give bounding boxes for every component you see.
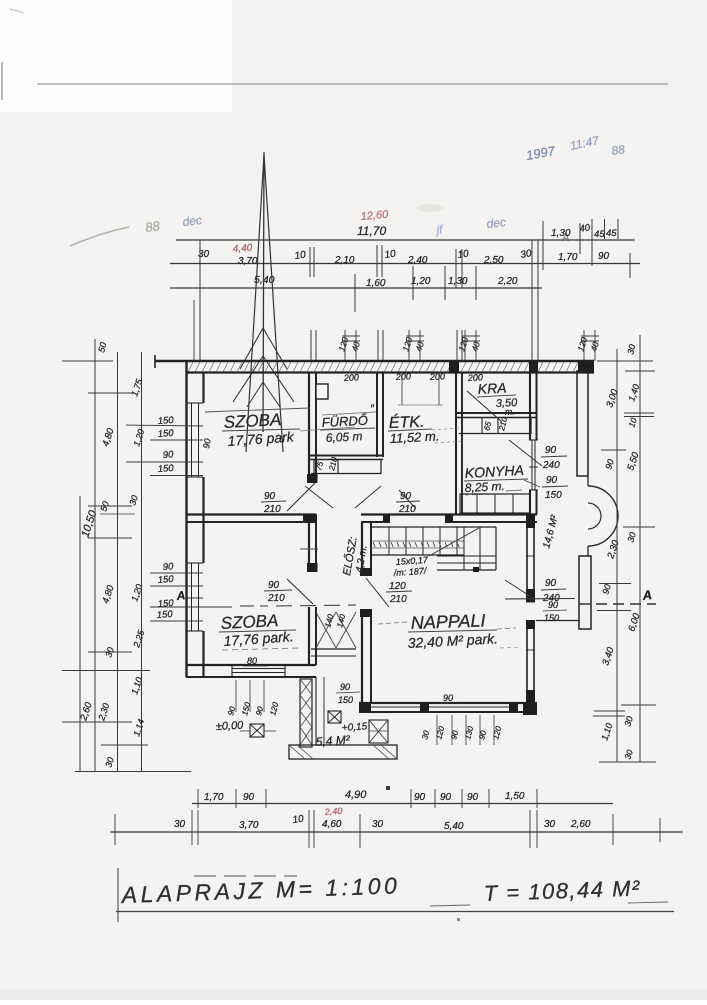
- bottom chain ticks lower: [115, 810, 660, 848]
- svg-text:1,50: 1,50: [505, 791, 525, 802]
- svg-text:10: 10: [384, 248, 397, 261]
- window W1 end ticks: [187, 403, 203, 477]
- left dims rotated mid: [100, 583, 146, 659]
- bottom chain line 1: [192, 803, 613, 805]
- veranda semicircle step: [588, 486, 618, 546]
- svg-text:5,4 M²: 5,4 M²: [315, 733, 351, 749]
- left window dims upper: [157, 415, 174, 475]
- title vertical tick: [117, 868, 119, 922]
- room label ELOSZ rotated: [339, 536, 370, 577]
- etk window verticals: [398, 372, 443, 405]
- konyha window dim 90-240: [509, 440, 567, 471]
- svg-text:200: 200: [467, 372, 484, 383]
- left window dims lower: [156, 561, 174, 621]
- nappali bottom dim ticks: [437, 715, 494, 745]
- wall etk-konyha: [456, 372, 462, 514]
- right dims rotated: [599, 343, 642, 760]
- window W2 glass lines: [192, 563, 199, 631]
- svg-text:90: 90: [268, 580, 280, 591]
- wall top left end tick: [154, 355, 156, 368]
- veranda semicircle inner: [588, 503, 601, 529]
- section line middle dashes: [276, 605, 356, 606]
- scan dot near bottom chain: [386, 786, 390, 790]
- kra door swing: [467, 391, 502, 422]
- svg-text:88: 88: [144, 218, 161, 235]
- svg-text:150: 150: [338, 695, 353, 705]
- left dims rotated upper: [79, 341, 146, 539]
- svg-text:45: 45: [594, 229, 605, 240]
- tree branch lower: [233, 356, 294, 407]
- wall nappali left: [362, 522, 371, 703]
- porch side lines: [316, 677, 324, 745]
- svg-text:2,10: 2,10: [334, 255, 355, 266]
- svg-text:200: 200: [395, 371, 412, 382]
- svg-text:80: 80: [247, 656, 257, 666]
- svg-text:90: 90: [340, 682, 350, 692]
- porch dim 90-150: [336, 682, 360, 705]
- stairs winder: [437, 527, 496, 572]
- kitchen counter: [460, 494, 530, 513]
- svg-text:NAPPALI: NAPPALI: [410, 610, 485, 633]
- svg-text:12,60: 12,60: [360, 209, 389, 223]
- door nappali label: [366, 578, 412, 607]
- benchmark p015: [328, 711, 368, 734]
- paper bright top-left corner: [0, 0, 232, 112]
- room label KONYHA: [464, 462, 528, 495]
- door jamb blocks middle wall: [303, 474, 318, 572]
- pencil curve top-left: [70, 227, 129, 246]
- svg-text:8,25 m.: 8,25 m.: [464, 479, 505, 495]
- svg-text:2,60: 2,60: [570, 819, 591, 830]
- svg-text:1,30: 1,30: [448, 276, 468, 287]
- svg-text:150: 150: [157, 463, 174, 475]
- wall top jamb block b: [529, 361, 538, 373]
- section line left: [150, 606, 268, 607]
- nappali bottom window glass: [371, 706, 509, 708]
- door hall swings X: [305, 486, 381, 508]
- svg-text:1,70: 1,70: [558, 252, 578, 263]
- stairs label: [392, 555, 429, 578]
- bottom chain ticks upper: [198, 789, 537, 808]
- svg-text:A: A: [641, 587, 653, 603]
- svg-text:dec: dec: [486, 215, 507, 231]
- window W2 end ticks: [187, 563, 203, 631]
- wall fur bottom: [309, 456, 383, 460]
- benchmark pm000: [216, 720, 276, 737]
- svg-text:SZOBA: SZOBA: [223, 410, 282, 432]
- wall top outer line: [155, 360, 594, 362]
- page top rule line: [37, 83, 668, 85]
- svg-text:2,40: 2,40: [323, 806, 342, 817]
- konyha window glass: [529, 440, 538, 490]
- room label NAPPALI: [378, 610, 520, 651]
- svg-text:210: 210: [263, 504, 281, 515]
- svg-text:240: 240: [542, 460, 560, 471]
- svg-text:120: 120: [389, 581, 406, 592]
- svg-text:10: 10: [294, 249, 307, 262]
- wall kra bottom: [456, 413, 537, 418]
- svg-text:90: 90: [545, 445, 557, 456]
- bottom wall rot dims: [226, 680, 280, 717]
- wall left inner segments: [202, 372, 204, 677]
- svg-text:1,30: 1,30: [551, 228, 571, 239]
- top chain line 1: [176, 239, 635, 241]
- wall bottom left inner: [186, 676, 316, 678]
- scan left edge mark: [1, 62, 3, 100]
- right chain verticals: [617, 335, 640, 762]
- svg-text:11,70: 11,70: [357, 224, 386, 238]
- dim 90 above bottom wall: [440, 693, 462, 703]
- konyha window dim 90-150: [524, 475, 568, 501]
- svg-text:KONYHA: KONYHA: [464, 462, 524, 481]
- veranda edge stubs: [536, 476, 588, 621]
- svg-text:88: 88: [610, 142, 625, 158]
- top chain ticks: [194, 240, 630, 361]
- title pre-rule: [194, 875, 297, 877]
- wall mid horizontal lower: [186, 521, 537, 523]
- svg-text:FÜRDŐ: FÜRDŐ: [321, 413, 368, 430]
- wall middle vertical outer: [308, 372, 310, 665]
- svg-text:90: 90: [243, 792, 255, 803]
- svg-text:4,60: 4,60: [322, 819, 342, 830]
- stairs outline: [371, 527, 496, 555]
- svg-text:30: 30: [544, 819, 556, 830]
- svg-text:3,70: 3,70: [239, 820, 259, 831]
- entry threshold: [311, 649, 356, 656]
- svg-text:150: 150: [157, 574, 174, 586]
- svg-text:150: 150: [156, 609, 173, 621]
- niche in szoba1 wall: [316, 384, 328, 399]
- svg-text:90: 90: [443, 693, 453, 703]
- svg-text:5,40: 5,40: [444, 821, 464, 832]
- svg-text:150: 150: [544, 613, 559, 623]
- svg-text:150: 150: [157, 428, 174, 440]
- veranda window rect upper: [577, 371, 588, 476]
- svg-text:90: 90: [201, 438, 213, 450]
- svg-text:2,40: 2,40: [407, 255, 428, 266]
- dim 80 above window W3: [243, 656, 268, 666]
- wall furdo-etk vertical: [377, 372, 383, 457]
- nappali right glass ticks: [526, 556, 535, 650]
- svg-text:3,70: 3,70: [238, 256, 258, 267]
- tree symbol right edge: [264, 155, 283, 452]
- room label FURDO: [320, 403, 376, 445]
- svg-text:200: 200: [429, 371, 446, 382]
- wall top hatching: [188, 362, 592, 372]
- section line right: [505, 599, 656, 605]
- scan dot under title: [457, 918, 460, 921]
- title underline dashes: [430, 902, 668, 906]
- wall bottom nappali jambs: [359, 703, 537, 715]
- window dim ticks above wall 3: [581, 330, 599, 361]
- svg-text:dec: dec: [182, 213, 203, 229]
- svg-text:1,20: 1,20: [411, 276, 431, 287]
- top chain line 3: [170, 287, 542, 289]
- wall bottom nappali inner: [359, 711, 537, 713]
- svg-text:30: 30: [174, 819, 186, 830]
- door etk label: [396, 490, 420, 515]
- svg-text:4,40: 4,40: [232, 243, 253, 255]
- nappali door dim 90-240: [505, 578, 567, 623]
- svg-text:2,50: 2,50: [483, 255, 504, 266]
- svg-text:10: 10: [292, 813, 305, 826]
- bottom chain line 2: [110, 831, 683, 833]
- wall left outer line: [185, 361, 187, 677]
- svg-text:90: 90: [414, 792, 426, 803]
- kra door band: [459, 418, 531, 434]
- svg-text:m.: m.: [505, 406, 516, 417]
- top chain line 2: [170, 263, 640, 265]
- svg-text:90: 90: [264, 491, 276, 502]
- title underline: [116, 911, 674, 913]
- wall top jamb block a: [449, 361, 459, 373]
- room label KRA: [477, 380, 518, 417]
- svg-text:10: 10: [457, 248, 470, 261]
- svg-text:150: 150: [157, 415, 174, 427]
- porch truss right: [369, 720, 388, 743]
- svg-text:1,60: 1,60: [366, 278, 386, 289]
- hall threshold small line: [300, 548, 318, 550]
- wall middle vertical inner: [315, 372, 317, 665]
- scan smudge mid: [416, 204, 444, 212]
- svg-text:150: 150: [545, 490, 562, 501]
- left chain verticals: [80, 339, 142, 772]
- wall top jamb block c: [578, 361, 594, 373]
- tree symbol trunk: [263, 152, 264, 432]
- left window leader lines: [126, 425, 203, 621]
- wall top inner line: [186, 371, 594, 373]
- svg-text:11,52 m.: 11,52 m.: [389, 428, 439, 446]
- paper bottom edge strip: [0, 989, 707, 1000]
- room label SZOBA 1: [205, 408, 355, 449]
- door szoba1 swing: [261, 483, 315, 515]
- window dim ticks above wall 2: [462, 330, 480, 361]
- tree symbol left edge: [246, 155, 264, 452]
- svg-text:90: 90: [162, 449, 174, 461]
- tree branch upper: [240, 328, 287, 369]
- window dim ticks above wall 0: [342, 330, 360, 361]
- svg-text:30: 30: [372, 819, 384, 830]
- window W3 in bottom wall: [232, 665, 285, 677]
- svg-text:90: 90: [162, 561, 174, 573]
- wall mid jamb blocks: [304, 514, 453, 522]
- svg-text:210: 210: [389, 594, 407, 605]
- wall bottom left outer: [186, 664, 316, 666]
- svg-text:4,90: 4,90: [345, 789, 367, 801]
- closet band under bathroom: [311, 459, 381, 474]
- svg-text:90: 90: [548, 600, 558, 610]
- stairs dotted strip: [371, 541, 464, 548]
- wall bottom nappali outer: [359, 702, 537, 704]
- veranda window rect lower: [579, 556, 591, 629]
- bottom chain lower dims: [174, 813, 591, 832]
- nappali left door jambs: [360, 568, 372, 617]
- svg-text:90: 90: [467, 792, 479, 803]
- top right separators: [543, 219, 618, 270]
- svg-text:45: 45: [606, 228, 617, 239]
- entry door hatch: [316, 612, 356, 648]
- svg-text:200: 200: [343, 372, 360, 383]
- svg-text:90: 90: [546, 475, 558, 486]
- svg-text:210: 210: [267, 593, 285, 604]
- left chain ticks: [62, 361, 191, 772]
- svg-text:6,05 m: 6,05 m: [325, 429, 362, 445]
- door szoba2 swing: [264, 579, 313, 604]
- svg-text:90: 90: [545, 578, 557, 589]
- window W1 glass lines: [192, 403, 199, 477]
- stairs arrow: [429, 528, 479, 556]
- bottom chain upper dims: [204, 789, 525, 803]
- room label SZOBA 2: [219, 611, 300, 650]
- svg-text:90: 90: [440, 792, 452, 803]
- nappali bottom rot dims: [420, 725, 503, 741]
- right chain ticks: [593, 361, 656, 762]
- paper subtle shade top right: [232, 0, 707, 112]
- svg-text:1,70: 1,70: [204, 792, 224, 803]
- svg-text:A: A: [175, 588, 186, 603]
- wall right nappali: [526, 514, 535, 712]
- svg-text:90: 90: [598, 251, 610, 262]
- stairs steps: [389, 527, 457, 555]
- scan corner mark: [10, 9, 24, 13]
- porch slab: [289, 745, 397, 759]
- window dim ticks above wall 1: [406, 330, 424, 361]
- room label ETK: [388, 412, 465, 446]
- interior 200 labels: [343, 371, 484, 383]
- wall mid horizontal upper: [186, 513, 537, 515]
- porch pillar hatched: [300, 679, 312, 747]
- left dims rotated bottom: [78, 676, 146, 769]
- wall right konyha: [530, 372, 537, 514]
- svg-text:2,20: 2,20: [497, 276, 518, 287]
